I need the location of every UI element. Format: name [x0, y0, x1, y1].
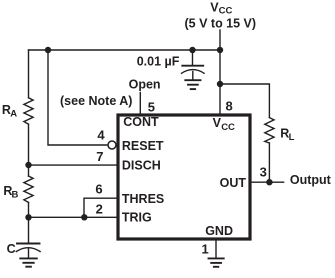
wire top rail	[29, 49, 221, 51]
svg-text:8: 8	[226, 98, 233, 113]
ground (GND pin)	[209, 258, 224, 266]
junction rail/RESET	[45, 47, 51, 53]
svg-text:Output: Output	[290, 173, 332, 187]
svg-text:0.01 µF: 0.01 µF	[137, 54, 180, 68]
IC U1 555 box	[118, 115, 250, 239]
svg-text:B: B	[12, 189, 19, 200]
ground (C cap)	[20, 258, 37, 266]
svg-text:C: C	[7, 242, 16, 256]
junction rail/bypass cap	[189, 47, 195, 53]
svg-text:RESET: RESET	[122, 139, 164, 153]
wire left vertical (rail to RA)	[28, 50, 30, 98]
wire RB to TRIG node	[28, 202, 30, 217]
resistor RA	[24, 98, 33, 124]
svg-text:TRIG: TRIG	[122, 211, 152, 225]
svg-text:OUT: OUT	[220, 176, 247, 190]
svg-text:CONT: CONT	[123, 115, 159, 129]
svg-text:Open: Open	[129, 77, 161, 91]
svg-text:THRES: THRES	[122, 192, 164, 206]
wire DISCH (pin 7)	[29, 164, 117, 166]
svg-text:GND: GND	[205, 224, 233, 238]
junction THRES/TRIG	[81, 214, 87, 220]
svg-text:A: A	[10, 108, 17, 119]
svg-text:4: 4	[97, 127, 105, 142]
junction VCC/RL branch	[217, 81, 223, 87]
svg-text:(see Note A): (see Note A)	[60, 94, 132, 108]
RESET inversion bubble pin 4	[108, 141, 116, 149]
wire RA to RB	[28, 124, 30, 176]
junction OUT node	[266, 179, 272, 185]
junction DISCH	[25, 162, 31, 168]
svg-text:1: 1	[201, 242, 208, 257]
wire TRIG (pin 2)	[29, 216, 117, 218]
svg-text:DISCH: DISCH	[122, 159, 161, 173]
svg-text:6: 6	[95, 182, 102, 197]
svg-text:7: 7	[96, 149, 103, 164]
resistor RL	[265, 118, 274, 143]
ground (bypass cap)	[185, 80, 200, 89]
svg-text:(5 V to 15 V): (5 V to 15 V)	[185, 16, 257, 30]
svg-text:5: 5	[148, 100, 155, 115]
wire VCC vertical (pin 8 feed)	[219, 30, 221, 114]
resistor RB	[24, 176, 33, 202]
svg-text:CC: CC	[219, 6, 233, 17]
svg-text:3: 3	[260, 164, 267, 179]
junction TRIG	[25, 214, 31, 220]
capacitor C (stem and plates)	[28, 217, 30, 243]
wire pin 5 stub	[139, 93, 141, 115]
svg-text:L: L	[289, 132, 295, 143]
wire RL branch from VCC	[220, 84, 269, 118]
svg-text:CC: CC	[221, 122, 235, 133]
svg-text:2: 2	[96, 202, 103, 217]
wire GND stub (pin 1)	[215, 240, 217, 259]
wire RESET branch	[48, 50, 108, 145]
junction rail/VCC	[217, 47, 223, 53]
wire THRES (pin 6)	[84, 198, 117, 217]
wire RL to OUT node	[268, 143, 270, 182]
wire OUT (pin 3)	[252, 181, 284, 183]
capacitor 0.01uF (stem and plates)	[192, 50, 194, 65]
